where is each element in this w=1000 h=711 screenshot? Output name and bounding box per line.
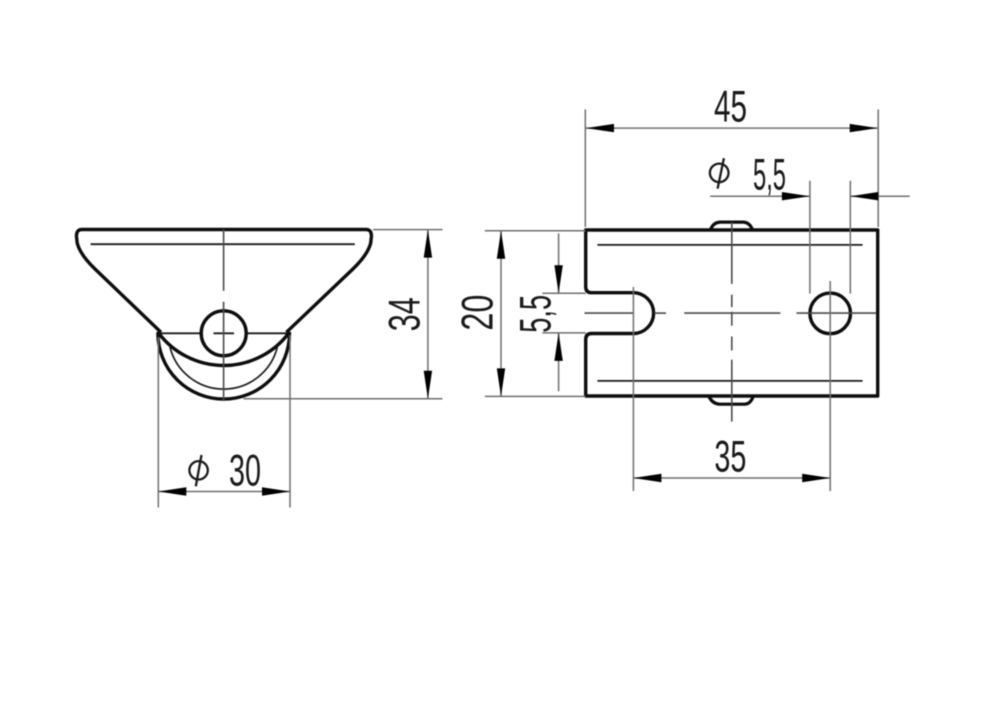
dimension 5,5 (slot): arrow up <box>554 333 562 361</box>
plate outline with slot <box>586 230 878 396</box>
centerline: left view vertical (lower segment) <box>223 302 225 401</box>
dimension 45: arrow left <box>586 124 614 132</box>
dimension Ø5,5: arrow pointing left <box>850 192 878 200</box>
dimension 5,5 (slot): dimension line upper <box>558 233 560 293</box>
dimension 34: dimension line <box>427 230 429 399</box>
dimension Ø30: dimension line <box>158 491 290 493</box>
dimension Ø5,5: dimension line right part <box>850 195 909 197</box>
svg-text:20: 20 <box>454 295 503 331</box>
centerline: right view horizontal segments <box>585 312 634 314</box>
centerline: left view vertical (upper segment) <box>223 229 225 290</box>
hub center dash <box>214 332 235 334</box>
fork bottom edge arc <box>159 333 289 365</box>
dimension 35: arrow right <box>802 474 830 482</box>
svg-text:30: 30 <box>229 447 261 496</box>
dimension Ø5,5: extension line right <box>849 181 851 294</box>
wire: wheel top edge line <box>159 332 289 334</box>
dimension 35: dimension line <box>633 477 830 479</box>
dimension Ø5,5 (hole): diameter symbol <box>710 164 729 183</box>
dimension 5,5 (slot): extension line bottom <box>542 332 585 334</box>
dimension 20: arrow up <box>497 231 505 259</box>
dimension 20: dimension line <box>500 231 502 397</box>
plate inner line <box>91 243 355 245</box>
dimension 35: arrow left <box>633 474 661 482</box>
dimension 20: extension line bottom <box>485 395 586 397</box>
plate inner line top <box>597 244 862 246</box>
dimension 5,5 (slot): extension line top <box>542 292 585 294</box>
wheel inner thin arc <box>170 347 277 389</box>
dimension Ø5,5: dimension line left part <box>710 195 810 197</box>
svg-text:45: 45 <box>714 82 747 131</box>
dimension Ø30: arrow right <box>262 487 290 495</box>
dimension 45: arrow right <box>850 124 878 132</box>
dimension 34: extension line top <box>373 229 443 231</box>
dimension 34: arrow up <box>424 230 432 258</box>
bottom pin bump <box>709 397 753 405</box>
dimension 35: extension line right <box>829 281 831 491</box>
dimension Ø5,5: extension line left <box>809 181 811 294</box>
dimension 20: extension line top <box>485 230 586 232</box>
svg-text:5,5: 5,5 <box>512 295 561 333</box>
mounting plate / fork outline <box>76 230 371 333</box>
wheel outer arc <box>158 333 290 399</box>
dimension 5,5 (slot): arrow down <box>554 265 562 293</box>
dimension 34: extension line bottom <box>244 398 443 400</box>
dimension Ø30: extension line right <box>289 335 291 508</box>
dimension 45: extension line left <box>584 109 586 227</box>
screw hole circle <box>810 293 851 334</box>
dimension 45: extension line right <box>877 109 879 227</box>
svg-text:35: 35 <box>714 432 746 481</box>
dimension 20: arrow down <box>497 368 505 396</box>
centerline: right view vertical segments <box>731 222 733 284</box>
dimension Ø30: arrow left <box>158 487 186 495</box>
svg-text:5,5: 5,5 <box>753 151 786 200</box>
dimension 35: extension line left <box>632 287 634 491</box>
dimension 45: dimension line <box>586 127 878 129</box>
dimension 5,5 (slot): dimension line lower <box>558 333 560 391</box>
dimension Ø30: extension line left <box>157 337 159 508</box>
plate inner line bottom <box>597 380 862 382</box>
axle hub circle <box>201 311 246 356</box>
top pin bump <box>711 222 753 229</box>
dimension Ø5,5: arrow pointing right <box>782 192 810 200</box>
dimension 34: arrow down <box>424 371 432 399</box>
svg-text:34: 34 <box>381 297 430 331</box>
dimension Ø30: diameter symbol <box>189 461 207 479</box>
